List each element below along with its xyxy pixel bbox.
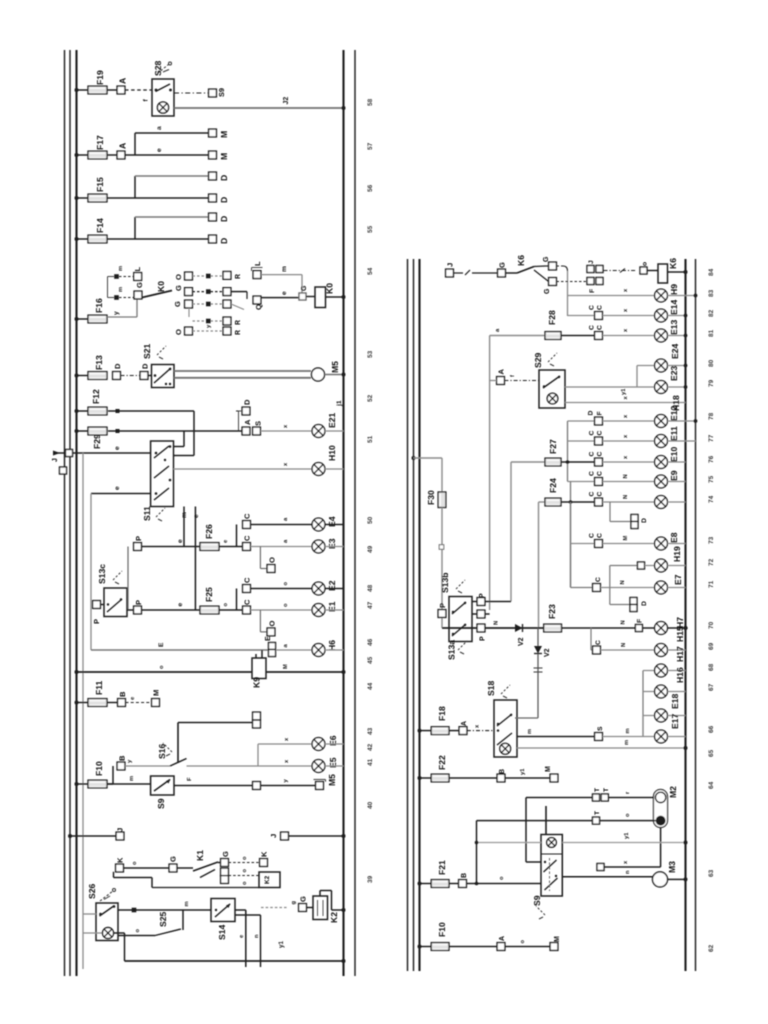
lamp E12 — [655, 405, 679, 427]
svg-text:74: 74 — [708, 495, 715, 503]
wire to E8 — [571, 543, 595, 545]
wire S16 up link — [177, 723, 179, 764]
svg-text:y1: y1 — [278, 941, 285, 948]
relay coil K0 — [315, 283, 335, 308]
svg-text:C: C — [589, 471, 596, 476]
svg-text:39: 39 — [367, 875, 374, 883]
connector C e12 — [588, 411, 604, 425]
svg-text:B: B — [499, 769, 506, 774]
svg-text:D: D — [641, 518, 648, 523]
svg-text:S26: S26 — [87, 883, 97, 899]
svg-text:50: 50 — [367, 516, 374, 524]
lamp E5 — [312, 757, 338, 772]
svg-text:y1: y1 — [624, 832, 630, 839]
wire J to S11 pin — [81, 446, 151, 453]
wire S11 out m — [181, 507, 188, 547]
switch S26 — [87, 883, 118, 940]
wire S9b out to rail — [562, 832, 685, 843]
svg-text:E7: E7 — [673, 574, 683, 585]
connector P1 s13b — [477, 593, 486, 605]
lamp inside S18 — [500, 743, 511, 754]
wire r4 dash — [193, 319, 223, 324]
node F16 rail junction — [75, 317, 79, 321]
svg-text:F14: F14 — [95, 218, 105, 233]
svg-text:45: 45 — [367, 656, 374, 664]
wire to lamp E3 — [250, 539, 312, 547]
connector M f11 — [152, 690, 161, 707]
connector P0 — [92, 601, 101, 624]
power rail 15 (right band middle) — [413, 259, 415, 971]
wire F25 branch up — [236, 589, 238, 611]
wire bus to S26 — [83, 913, 96, 915]
wire bus to S26 lamp — [83, 932, 103, 934]
node E24 rail — [684, 364, 688, 368]
svg-text:F24: F24 — [548, 478, 558, 493]
connector O2 — [267, 621, 276, 636]
svg-text:64: 64 — [708, 781, 715, 789]
wire C to lamp E12 — [602, 414, 654, 421]
diode V2b — [534, 628, 551, 657]
connector Lx — [252, 261, 263, 279]
wire S16 to E-row — [187, 765, 259, 767]
track numbers right band — [708, 268, 715, 952]
svg-text:m: m — [129, 776, 135, 781]
connector O1 — [267, 557, 276, 572]
connector r5b — [223, 327, 242, 335]
fuse F17 — [88, 135, 107, 159]
switch S29 — [533, 352, 565, 408]
wire rail to fuse F17 — [77, 154, 89, 156]
svg-text:84: 84 — [708, 268, 715, 276]
open connector J2 — [52, 458, 67, 474]
wire into S11 pin2 — [174, 455, 195, 457]
wire rail to fuse F14 — [77, 238, 89, 240]
svg-text:L: L — [253, 261, 262, 266]
fuse F22 — [431, 755, 449, 782]
svg-text:M: M — [623, 536, 629, 541]
lamp E4 — [312, 516, 337, 531]
svg-text:S: S — [254, 421, 263, 426]
switch S28 actuator doodle — [158, 62, 172, 74]
connector G k6 — [498, 262, 507, 277]
svg-text:o: o — [283, 603, 289, 607]
wire H6 to rail — [325, 649, 344, 651]
wire E24 to rail — [667, 365, 685, 367]
svg-text:K: K — [260, 851, 269, 857]
svg-text:E11: E11 — [669, 426, 679, 441]
wire K2 feed (dash) — [261, 901, 297, 908]
wire F20 to A — [449, 946, 497, 948]
svg-text:B: B — [461, 873, 468, 878]
wire a2 to G conn (dash) — [119, 297, 134, 299]
wire f24 row to rail — [667, 501, 685, 503]
svg-text:o: o — [223, 603, 229, 607]
svg-text:m: m — [527, 729, 533, 734]
wire M2 to M3 — [604, 828, 661, 868]
wire B to S16 — [125, 759, 170, 766]
lamp H19 — [655, 546, 682, 572]
svg-text:g: g — [291, 901, 297, 905]
svg-text:G: G — [498, 262, 507, 268]
switch S11 actuator — [156, 508, 165, 521]
wire r5 dash — [193, 324, 223, 331]
svg-text:E24: E24 — [670, 343, 680, 359]
svg-text:E14: E14 — [669, 299, 679, 315]
svg-text:E4: E4 — [327, 516, 337, 527]
contact inside S28 — [155, 84, 172, 92]
wire S18 pin2 out — [517, 729, 595, 737]
wire C to lamp E13 — [602, 328, 654, 336]
svg-text:R: R — [235, 274, 242, 279]
lamp H17 — [655, 646, 685, 677]
svg-text:72: 72 — [708, 558, 715, 566]
horn M2 — [654, 786, 679, 828]
wire main bus — [442, 627, 544, 629]
svg-text:47: 47 — [367, 601, 374, 609]
svg-text:G: G — [543, 256, 550, 262]
power rail X (right band inner) — [418, 259, 420, 971]
connector D6 — [140, 363, 149, 379]
svg-text:C: C — [597, 305, 604, 310]
connector G k1 — [169, 856, 178, 872]
lamp H9 — [655, 284, 679, 302]
svg-text:F: F — [589, 289, 596, 293]
svg-text:C: C — [243, 535, 252, 541]
svg-text:F19: F19 — [95, 70, 105, 85]
node F17 rail junction — [75, 153, 79, 157]
svg-text:M: M — [219, 153, 229, 160]
connector K right — [260, 851, 269, 866]
wire rail to fuse F10 — [77, 783, 89, 785]
svg-text:E8: E8 — [669, 532, 679, 543]
svg-text:K0: K0 — [325, 283, 335, 294]
wire K6 coil to rail — [668, 271, 686, 273]
wire rail to fuse F18 — [420, 730, 432, 732]
connector Qx — [253, 296, 263, 310]
contact K0 switch — [142, 281, 172, 298]
wire J dash contact — [454, 270, 498, 275]
svg-text:J: J — [588, 260, 595, 264]
connector pair J — [587, 260, 603, 273]
wire E18 branch — [643, 716, 655, 737]
fuse F10 — [88, 761, 107, 788]
svg-text:o: o — [132, 861, 138, 865]
lamp H6 — [312, 640, 337, 657]
wire C to lamp E7 — [600, 580, 654, 587]
svg-text:F: F — [637, 619, 644, 623]
svg-text:E17: E17 — [670, 713, 680, 729]
svg-text:C: C — [589, 431, 596, 436]
svg-text:K0: K0 — [156, 281, 166, 292]
wire C to lamp f24 — [602, 495, 654, 502]
connector A s29 — [497, 369, 506, 385]
wire to E11 — [568, 440, 595, 442]
wire to lamp E2 — [250, 582, 312, 589]
svg-text:58: 58 — [367, 98, 374, 106]
contacts inside S11 — [154, 445, 171, 500]
wire link E7-H19 — [610, 566, 638, 588]
svg-text:D: D — [219, 175, 229, 181]
svg-text:80: 80 — [708, 359, 715, 367]
node J rail junction — [68, 834, 72, 838]
connector P s13b feed — [438, 603, 447, 617]
wire pair to K2a (dash) — [229, 869, 260, 876]
wire E4 to rail — [325, 524, 344, 526]
wire S11 down bus — [90, 494, 92, 651]
svg-text:G: G — [299, 896, 308, 902]
fuse F28 — [545, 310, 561, 339]
wire rail to fuse F21 — [420, 883, 432, 885]
contact S25 — [155, 911, 181, 935]
svg-text:S: S — [597, 726, 604, 731]
ground rail 31 (right band inner) — [684, 259, 686, 971]
svg-text:y: y — [113, 311, 120, 315]
svg-text:e: e — [177, 539, 184, 543]
svg-text:56: 56 — [367, 184, 374, 192]
svg-text:T: T — [603, 788, 610, 792]
svg-text:G: G — [173, 301, 182, 307]
svg-text:78: 78 — [708, 412, 715, 420]
wire S to junction — [602, 728, 654, 736]
wire D5 to D6 (dash-dot) — [121, 375, 141, 377]
wire rail to relay K9 — [77, 665, 253, 672]
svg-text:57: 57 — [367, 142, 374, 150]
switch S13c — [97, 564, 127, 617]
wire r3 dash — [193, 302, 223, 307]
wire J4 to rail — [289, 835, 344, 837]
wire r2 out — [231, 292, 247, 299]
svg-text:T: T — [594, 788, 601, 792]
connector T m2b — [593, 811, 602, 824]
relay K2a — [259, 872, 280, 888]
node F22 rail junction — [418, 776, 422, 780]
svg-text:C: C — [589, 533, 596, 538]
connector D4 — [209, 235, 229, 244]
wire o to K6 coil — [647, 270, 658, 272]
svg-text:F11: F11 — [94, 680, 104, 695]
wire F10 to S9 — [107, 776, 151, 784]
connector pair k2a — [221, 868, 229, 883]
wire E23 to rail — [667, 386, 685, 388]
connector M f20 — [550, 936, 561, 950]
switch S9b heated window — [532, 835, 562, 907]
wire branch a to connector M1 — [135, 126, 209, 133]
wire F26 branch up — [236, 525, 238, 547]
connector r1b — [223, 272, 242, 280]
svg-text:48: 48 — [367, 584, 374, 592]
wire JF to o (dashdot) — [604, 269, 637, 273]
svg-text:O: O — [174, 274, 183, 280]
svg-text:N: N — [620, 580, 626, 584]
wire bus to E14 — [568, 315, 595, 317]
svg-text:E2: E2 — [327, 580, 337, 591]
pin label f — [143, 99, 150, 102]
connector C e7 — [593, 577, 602, 591]
wire to lamp E1 — [250, 603, 312, 610]
wire rail to fuse F13 — [77, 375, 89, 377]
connector F h7 — [635, 619, 643, 632]
node K0 rail — [342, 295, 346, 299]
svg-text:A: A — [499, 936, 506, 941]
wire F18 to A — [449, 730, 459, 732]
svg-text:C: C — [589, 305, 596, 310]
wire P2 to bus riser — [472, 613, 490, 615]
svg-text:S18: S18 — [486, 680, 496, 696]
wire B to M (dash) — [126, 696, 152, 703]
ground rail 31b (right band outer) — [695, 259, 697, 971]
fuse F30 — [426, 490, 446, 508]
svg-text:49: 49 — [367, 545, 374, 553]
node F21 riser — [475, 882, 479, 886]
wire to E9 — [568, 481, 595, 483]
svg-text:Q: Q — [254, 304, 263, 310]
tick F29 — [116, 429, 120, 433]
svg-text:o: o — [625, 813, 631, 817]
switch S16 contact — [157, 743, 187, 766]
wire F21 to B — [449, 883, 459, 885]
connector o k6 — [640, 262, 649, 274]
wire F25 out — [219, 603, 243, 611]
svg-text:F16: F16 — [94, 298, 104, 313]
switch S9b actuator — [536, 906, 545, 919]
svg-text:44: 44 — [367, 682, 374, 690]
connector S1 — [253, 421, 263, 435]
wire S14 out down — [235, 910, 246, 967]
branch to D pair — [610, 502, 631, 522]
svg-text:E23: E23 — [669, 365, 679, 381]
connector C e2 — [243, 577, 252, 592]
svg-text:L: L — [133, 267, 142, 272]
wire r1 dash — [193, 274, 223, 279]
wire riser to S9b pin — [526, 806, 546, 862]
svg-text:71: 71 — [708, 580, 715, 588]
wire T to M2 bottom — [600, 813, 656, 821]
svg-text:C: C — [595, 577, 602, 582]
svg-text:G: G — [174, 285, 183, 291]
connector M1 — [209, 129, 229, 138]
svg-text:79: 79 — [708, 379, 715, 387]
svg-text:J: J — [269, 834, 278, 838]
node F19 rail junction — [75, 88, 79, 92]
wire S21 to M5 double — [174, 371, 311, 378]
svg-text:E18: E18 — [670, 693, 680, 709]
connector B f22 — [497, 769, 506, 782]
lamp E1 — [312, 601, 337, 616]
switch S26 actuator — [100, 889, 116, 902]
svg-text:R: R — [235, 330, 242, 335]
connector D1 — [209, 172, 229, 181]
connector J k6 — [446, 263, 455, 277]
svg-text:S13c: S13c — [97, 564, 107, 584]
connector S e17 — [595, 726, 604, 740]
svg-text:B: B — [118, 755, 127, 761]
svg-text:y1: y1 — [621, 388, 627, 395]
connector B f21 — [459, 873, 468, 887]
connector D5 — [113, 363, 122, 379]
node M3 rail — [684, 877, 688, 881]
svg-text:66: 66 — [708, 725, 715, 733]
wire G to K2 — [307, 907, 314, 909]
svg-text:F26: F26 — [204, 524, 214, 539]
wire rail to fuse F12 — [77, 410, 89, 412]
lamp inside S9b — [547, 838, 557, 848]
svg-text:C: C — [243, 599, 252, 605]
ground rail 31b (left band outer right) — [354, 50, 356, 976]
lamp E6 — [312, 735, 338, 750]
connector sq h19 — [638, 562, 645, 569]
wire rail to fuse F11 — [77, 702, 89, 704]
node F14 rail junction — [75, 237, 79, 241]
connector r4b — [223, 317, 242, 325]
connector sq m3 — [597, 864, 604, 871]
node F10 rail junction — [75, 782, 79, 786]
wire S26 lamp out — [114, 933, 125, 961]
wire V2b to S18 — [534, 654, 543, 718]
node K6 rail — [684, 270, 688, 274]
wire F16 to switch (grey) — [107, 299, 137, 317]
connector C h15 — [593, 640, 602, 654]
svg-text:P: P — [134, 536, 143, 541]
wire G to K1 — [177, 867, 193, 869]
switch S13c actuator — [113, 571, 122, 584]
node F21 rail junction — [418, 882, 422, 886]
svg-text:K2: K2 — [329, 912, 339, 923]
svg-text:E3: E3 — [327, 538, 337, 549]
bracket D7-A — [239, 411, 243, 431]
switch S21 actuator — [157, 346, 166, 359]
lamp E7 — [655, 574, 683, 594]
wire M5 to rail — [325, 374, 344, 376]
connector G down — [544, 278, 556, 294]
label O r1 — [174, 274, 183, 280]
svg-text:H6: H6 — [327, 640, 337, 651]
power rail 30 (left band outer) — [64, 50, 66, 976]
fuse F19 — [88, 70, 107, 94]
contacts inside S9b — [544, 858, 558, 891]
svg-text:V2: V2 — [544, 648, 551, 657]
svg-text:A: A — [118, 143, 128, 149]
node K9 ground rail — [342, 670, 346, 674]
lamp inside S29 — [547, 393, 558, 404]
node J4 rail — [342, 834, 346, 838]
svg-text:C: C — [589, 325, 596, 330]
wire F12 to corner — [108, 411, 194, 456]
svg-text:C: C — [243, 577, 252, 583]
svg-text:67: 67 — [708, 683, 715, 691]
svg-text:52: 52 — [367, 394, 374, 402]
node K2 rail — [342, 908, 346, 912]
lamp f24 row — [655, 496, 668, 509]
svg-text:40: 40 — [367, 801, 374, 809]
switch S9 — [151, 776, 174, 809]
svg-text:P: P — [438, 603, 447, 608]
lamp E11 — [655, 426, 679, 447]
connector G k0 — [134, 282, 144, 299]
wire S26 to S14 row — [118, 901, 211, 912]
svg-text:F10: F10 — [437, 922, 447, 937]
svg-text:H10: H10 — [327, 445, 337, 461]
svg-text:e: e — [156, 148, 163, 152]
connector C e4 — [243, 513, 252, 528]
power rail 30 (right band outer) — [407, 259, 409, 971]
node E23 rail — [684, 385, 688, 389]
svg-text:46: 46 — [367, 638, 374, 646]
wire e to G2 — [261, 291, 299, 298]
wire sq to lamp H19 — [645, 565, 655, 567]
lamp E21 — [312, 412, 337, 437]
svg-text:G: G — [301, 285, 308, 291]
svg-text:H16: H16 — [675, 667, 685, 683]
